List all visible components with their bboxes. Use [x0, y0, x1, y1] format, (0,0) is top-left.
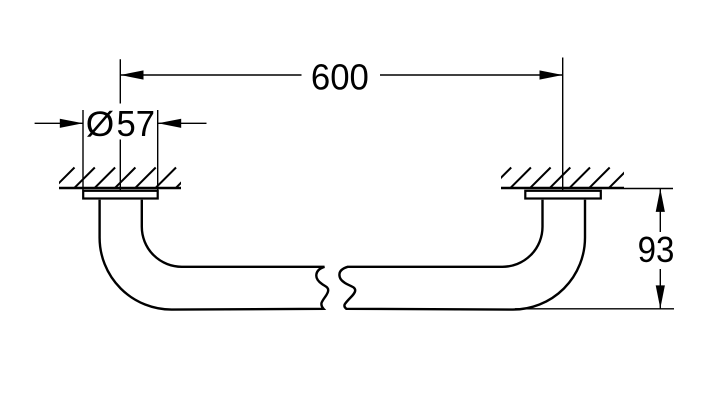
extension line Ø57 right: [157, 110, 159, 190]
arrowhead 600 left: [120, 70, 143, 79]
extension line Ø57 left: [82, 110, 84, 190]
left wall line: [59, 187, 181, 189]
right wall line: [501, 187, 624, 189]
svg-text:57: 57: [117, 103, 156, 144]
extension line 93 bottom: [515, 308, 674, 310]
right flange: [525, 191, 601, 199]
dim Ø57 leader line right: [158, 122, 207, 124]
dim line 93: [659, 189, 661, 309]
svg-text:Ø: Ø: [86, 105, 115, 144]
extension line 93 top: [624, 188, 673, 190]
text mask 600: [302, 57, 381, 93]
extension line left (600) / center line of left flange: [119, 59, 121, 190]
text mask Ø57: [86, 104, 156, 140]
arrowhead 93 up: [656, 189, 665, 212]
arrowhead Ø57 right: [158, 119, 181, 128]
bar left half (tube, bend, bar to break): [100, 200, 329, 310]
dim line 600: [120, 74, 562, 76]
text mask 93: [638, 232, 674, 269]
arrowhead 93 down: [656, 285, 665, 308]
left flange: [83, 191, 158, 199]
dim Ø57 leader line left: [35, 122, 83, 124]
arrowhead 600 right: [540, 70, 563, 79]
svg-text:93: 93: [638, 229, 675, 270]
left wall hatching: [54, 168, 197, 189]
bar right half (break to tube, bend): [339, 200, 585, 310]
arrowhead Ø57 left: [60, 119, 83, 128]
extension line right (600): [562, 58, 564, 191]
right wall hatching: [490, 168, 629, 189]
svg-text:600: 600: [311, 57, 369, 98]
